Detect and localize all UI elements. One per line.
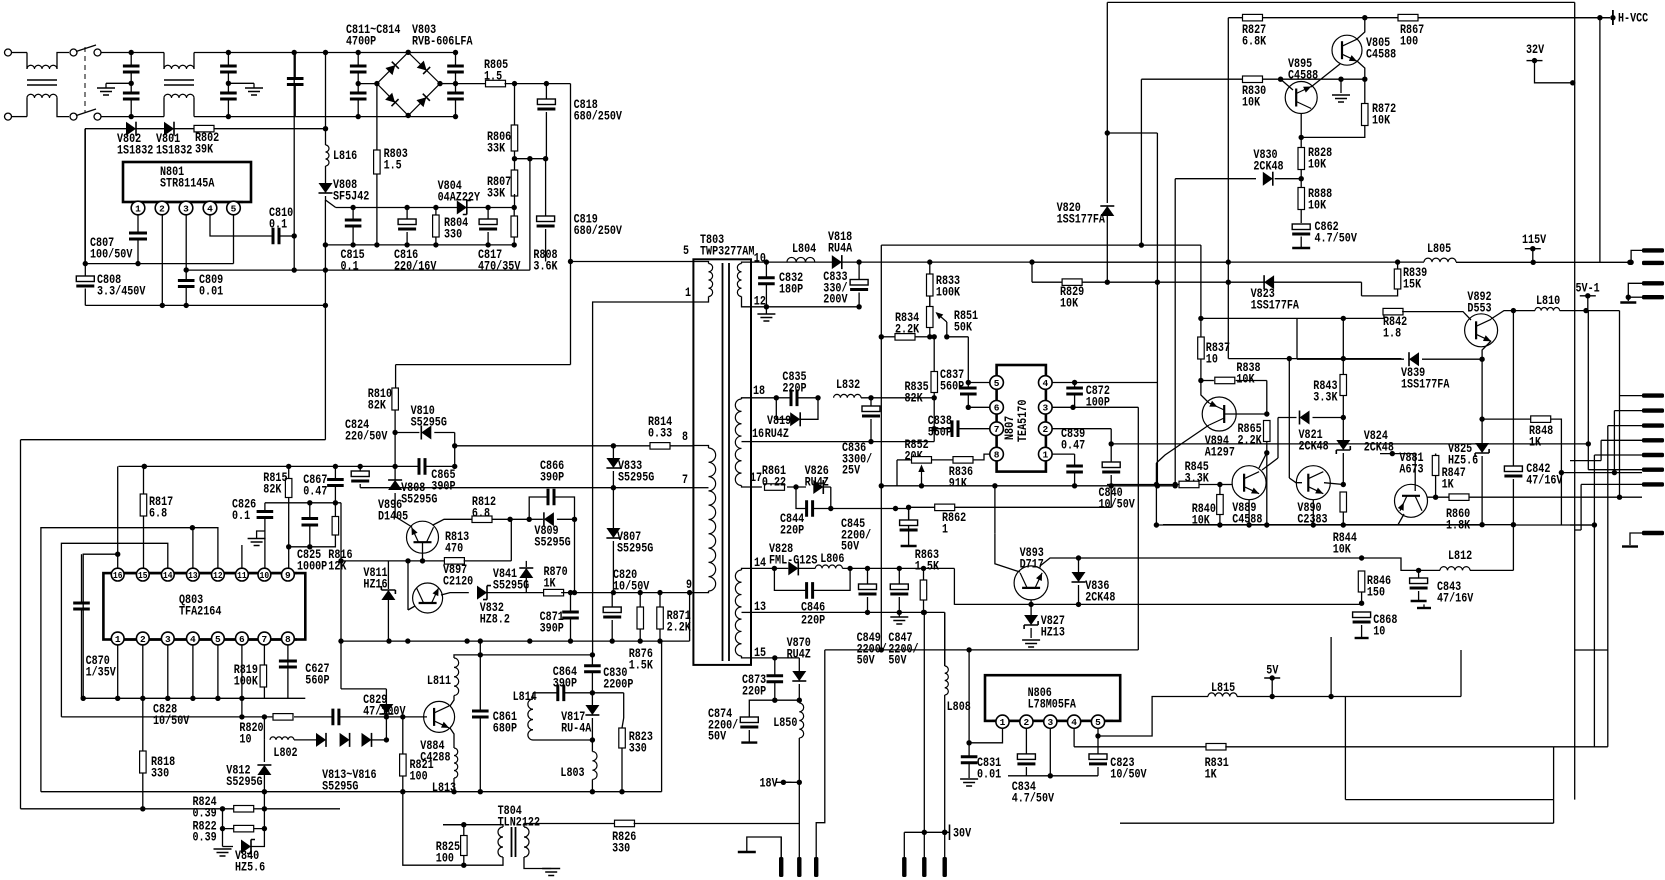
wire [591, 780, 593, 792]
wire gnd stub [1340, 79, 1342, 93]
wire y655 row [480, 654, 592, 656]
junction [461, 822, 466, 827]
wire V892 emitter2 [1482, 341, 1491, 359]
Q803 pin 4 [187, 632, 200, 645]
wire [932, 459, 953, 461]
wire V881 collector [1398, 514, 1404, 525]
wire V889 base [1220, 484, 1232, 486]
wire y650 left drop [816, 650, 825, 857]
wire V897 out row [441, 593, 469, 595]
wire blade s5 [1594, 454, 1642, 456]
junction [1109, 483, 1114, 488]
wire N807 pin3 [1052, 406, 1138, 408]
connector pin g1 [1642, 531, 1664, 535]
wire V894 collector [1156, 425, 1209, 463]
junction [1029, 259, 1034, 264]
wire C826 gnd stub [257, 531, 265, 539]
junction [772, 655, 777, 660]
svg-text:0.01: 0.01 [199, 283, 223, 298]
junction [165, 696, 170, 701]
wire y650 bus [825, 649, 1139, 651]
inductor L832 [834, 394, 861, 397]
connector pin bottom x944 [943, 857, 947, 877]
T803 primary winding 5-1 [709, 264, 713, 297]
svg-text:220/50V: 220/50V [345, 428, 388, 443]
wire N806 pin1 [969, 728, 1002, 743]
wire [101, 52, 131, 54]
resistor R817 [140, 494, 147, 516]
wire Q803 pin down [142, 645, 144, 698]
wire blade s3 [1608, 425, 1642, 427]
svg-text:10: 10 [260, 570, 270, 581]
svg-text:10/50V: 10/50V [1110, 766, 1146, 781]
wire pin15 col [143, 516, 145, 568]
svg-text:47/16V: 47/16V [1526, 472, 1562, 487]
svg-text:TLN2122: TLN2122 [498, 814, 541, 829]
svg-text:10/50V: 10/50V [153, 713, 189, 728]
junction [638, 590, 643, 595]
wire [440, 83, 456, 85]
wire [295, 116, 358, 118]
junction [433, 205, 438, 210]
junction [129, 81, 134, 86]
wire C825 down [309, 525, 311, 547]
diode V808 [319, 183, 333, 193]
junction [1592, 522, 1597, 527]
wire [163, 98, 165, 117]
wire [223, 846, 234, 848]
svg-text:L806: L806 [820, 551, 844, 566]
junction [262, 789, 267, 794]
resistor R820 [273, 714, 293, 721]
svg-text:A1297: A1297 [1205, 444, 1235, 459]
capacitor C845 [900, 520, 918, 526]
wire 5V feed [1098, 697, 1208, 737]
wire [955, 506, 1111, 508]
junction [543, 156, 548, 161]
svg-text:1/35V: 1/35V [86, 664, 116, 679]
wire [798, 658, 800, 671]
N801 pin 4 [203, 201, 217, 215]
wire [395, 432, 419, 434]
svg-text:TFA2164: TFA2164 [179, 603, 222, 618]
wire N801 pin1 [137, 215, 139, 233]
wire [1200, 359, 1202, 381]
junction [512, 242, 517, 247]
capacitor filter-1a [123, 66, 140, 72]
resistor R818 [140, 751, 147, 773]
N806 pin 1 [996, 715, 1009, 728]
junction [879, 647, 884, 652]
wire y358 bus [1228, 358, 1401, 360]
resistor R816 [332, 517, 339, 536]
terminal AC-L [5, 49, 12, 56]
T803 lead pin17 [742, 486, 752, 488]
svg-text:2: 2 [140, 634, 146, 645]
wire T804 bottom feed [403, 792, 464, 866]
wire [193, 98, 195, 117]
N807 pin 1 [1039, 447, 1053, 461]
wire [1300, 237, 1302, 248]
wire x1345 [1344, 697, 1346, 800]
wire R862 row [909, 506, 935, 508]
wire [293, 53, 295, 271]
wire [227, 99, 229, 117]
wire y472 ext [1614, 472, 1642, 474]
wire blade s2 [1614, 410, 1642, 412]
svg-text:330: 330 [151, 765, 169, 780]
wire pin16 bracket [83, 554, 118, 698]
diode V804 [457, 201, 467, 215]
T803 lead pin13 [742, 611, 752, 613]
resistor R843 [1340, 375, 1347, 396]
junction [323, 242, 328, 247]
capacitor C870 [73, 603, 90, 609]
transistor V896 D1405 [407, 521, 439, 553]
wire L814 top [532, 693, 534, 699]
junction [906, 505, 911, 510]
wire V821 left down [1277, 418, 1279, 459]
junction [1479, 522, 1484, 527]
junction [115, 696, 120, 701]
junction [451, 789, 456, 794]
svg-text:D717: D717 [1020, 556, 1044, 571]
junction [1597, 15, 1602, 20]
wire [748, 730, 750, 742]
svg-text:3: 3 [165, 634, 171, 645]
wire R826 out [634, 823, 800, 825]
svg-text:S5295G: S5295G [493, 577, 529, 592]
N801 pin rail [131, 201, 243, 203]
wire [227, 72, 229, 94]
wire [1418, 570, 1420, 578]
resistor R827 [1243, 14, 1263, 21]
N807 pin 7 [990, 422, 1004, 436]
junction [1362, 77, 1367, 82]
wire V890 emitter [1312, 500, 1314, 525]
Q803 pin 5 [212, 632, 225, 645]
Q803 pin 13 [187, 568, 200, 581]
wire bus y808 [21, 808, 234, 810]
N801 pin 3 [179, 201, 193, 215]
svg-text:H-VCC: H-VCC [1618, 11, 1648, 26]
junction [452, 464, 457, 469]
T803 lead pin15 [742, 656, 752, 658]
capacitor C819 [537, 216, 555, 222]
svg-text:HZ8.2: HZ8.2 [480, 611, 510, 626]
wire [1313, 417, 1344, 419]
wire [325, 129, 327, 145]
T803 lead pin1 [693, 297, 708, 303]
wire [403, 716, 427, 718]
wire R847 down [1435, 476, 1437, 498]
IC N807 TEA5170 box [997, 365, 1046, 472]
wire [455, 99, 457, 117]
wire L850 down [798, 738, 800, 857]
wire pin14 bracket [61, 543, 167, 717]
resistor R848 [1531, 416, 1551, 423]
wire [611, 620, 613, 641]
wire [294, 53, 296, 79]
wire Q803 pin down [217, 645, 219, 698]
wire R825 top [443, 824, 464, 826]
wire [1199, 484, 1220, 486]
wire [425, 465, 455, 467]
svg-text:7: 7 [994, 424, 1000, 435]
wire [455, 72, 457, 94]
resistor R867 [1398, 14, 1418, 21]
svg-text:50V: 50V [888, 653, 906, 668]
wire H-VCC row [1228, 17, 1600, 19]
resistor R807 [511, 170, 518, 196]
junction [897, 566, 902, 571]
junction [1531, 260, 1536, 265]
wire [1364, 79, 1366, 104]
wire [1627, 297, 1629, 301]
junction [485, 242, 490, 247]
wire R839 down [1362, 289, 1398, 296]
junction [1626, 295, 1631, 300]
trimmer R852 [912, 457, 932, 464]
wire [867, 568, 869, 584]
svg-text:220/16V: 220/16V [394, 258, 437, 273]
wire [968, 743, 970, 757]
inductor line-choke-2 bottom [164, 94, 194, 98]
junction [433, 242, 438, 247]
wire [325, 53, 327, 129]
svg-text:390P: 390P [553, 675, 577, 690]
wire [915, 336, 930, 338]
transistor V895 C4588 [1285, 82, 1317, 114]
wire [861, 397, 934, 399]
junction [610, 638, 615, 643]
svg-text:L832: L832 [836, 377, 860, 392]
wire bus y641 [341, 640, 690, 642]
resistor R862 [935, 504, 955, 511]
wire [263, 792, 265, 809]
junction [1155, 483, 1160, 488]
wire R837 col top [1200, 245, 1202, 318]
junction [1173, 483, 1178, 488]
wire [84, 264, 86, 276]
resistor R825 [461, 836, 468, 856]
wire V841 down [525, 578, 527, 593]
N807 pin 4 [1039, 376, 1053, 390]
resistor R847 [1432, 456, 1439, 476]
svg-text:0.01: 0.01 [977, 766, 1001, 781]
svg-text:2CK48: 2CK48 [1364, 439, 1394, 454]
N801 pin 5 [227, 201, 241, 215]
wire N806 pin5 [1097, 728, 1099, 736]
resistor R821 [400, 754, 407, 776]
wire V805 emitter [1357, 61, 1365, 79]
wire x934 col [933, 398, 935, 442]
wire R851 wiper [946, 322, 948, 337]
wire R829 row [1032, 281, 1063, 283]
wire [898, 612, 900, 617]
junction [323, 126, 328, 131]
svg-text:10K: 10K [1333, 541, 1351, 556]
junction [478, 652, 483, 657]
svg-text:S5295G: S5295G [617, 540, 653, 555]
trimmer R852 arrow [921, 466, 923, 477]
wire [435, 237, 437, 245]
diode V826 [813, 480, 823, 494]
capacitor C815 [345, 220, 362, 226]
svg-text:9: 9 [686, 577, 692, 592]
junction [1139, 242, 1144, 247]
wire R823 top [622, 718, 624, 728]
wire R865 top feed [1266, 381, 1268, 415]
svg-text:S5295G: S5295G [411, 414, 447, 429]
switch dashed link [84, 47, 86, 112]
diode V839 [1409, 352, 1419, 366]
connector pin bottom x816 [814, 857, 818, 877]
wire [227, 53, 229, 67]
svg-text:5V-1: 5V-1 [1576, 280, 1600, 295]
svg-text:18V: 18V [760, 775, 778, 790]
wire R865 to V889 [1259, 453, 1267, 468]
N807 pin 8 [990, 447, 1004, 461]
wire [923, 600, 925, 612]
capacitor filter-2a [220, 66, 237, 72]
junction [797, 698, 802, 703]
svg-text:16: 16 [752, 426, 764, 441]
N807 pin 6 [990, 401, 1004, 415]
Q803 pin 1 [111, 632, 124, 645]
wire V805 collector [1357, 18, 1365, 39]
op-amp N801 box [123, 162, 251, 202]
wire [434, 432, 454, 434]
wire pin12 up [193, 528, 218, 569]
svg-text:2200P: 2200P [603, 676, 633, 691]
wire N807 pin1 [1052, 453, 1075, 455]
svg-text:1.8: 1.8 [1383, 325, 1401, 340]
wire [1236, 380, 1267, 382]
switch blade bottom [76, 109, 96, 116]
wire V830 col [1174, 179, 1176, 486]
resistor R814 [650, 443, 670, 450]
ground bottom [738, 851, 756, 853]
resistor R888 [1298, 188, 1305, 210]
wire V895 collector [1311, 64, 1340, 87]
junction [932, 395, 937, 400]
resistor R829 [1062, 279, 1082, 286]
diode V825 zener [1475, 443, 1489, 453]
wire [1422, 358, 1482, 360]
N801 pin 1 [131, 201, 145, 215]
wire [456, 83, 487, 85]
capacitor C849 [859, 584, 877, 590]
wire [1074, 472, 1076, 486]
svg-text:100: 100 [436, 850, 454, 865]
resistor R802 [194, 125, 214, 131]
wire blade1 [1631, 250, 1642, 262]
wire [57, 98, 69, 117]
svg-text:30V: 30V [953, 826, 971, 841]
wire x954 col [953, 568, 955, 604]
wire y604 row [954, 603, 1361, 605]
resistor R863 [920, 580, 927, 600]
wire x1513 down2 [1512, 525, 1514, 571]
junction [400, 789, 405, 794]
svg-text:L812: L812 [1448, 548, 1472, 563]
svg-text:3: 3 [1042, 403, 1048, 414]
wire Q803 pin down [117, 645, 119, 698]
wire x1461 [1460, 650, 1462, 697]
svg-text:C2120: C2120 [443, 573, 473, 588]
wire 115V rail left [1032, 261, 1424, 263]
wire [325, 244, 514, 246]
wire [1082, 281, 1362, 283]
wire [357, 99, 359, 117]
resistor R837 [1198, 337, 1205, 359]
wire C867 col [334, 466, 336, 479]
wire [1481, 419, 1483, 443]
wire [591, 740, 593, 752]
wire [142, 773, 144, 809]
wire 115V stub [1532, 249, 1534, 263]
wire [487, 208, 489, 220]
junction [572, 517, 577, 522]
wire [787, 486, 806, 488]
wire V893 col up [994, 486, 996, 533]
svg-text:4: 4 [1042, 378, 1048, 389]
N806 pin 2 [1020, 715, 1033, 728]
svg-text:1: 1 [115, 634, 121, 645]
svg-text:25V: 25V [842, 463, 860, 478]
capacitor C865 [419, 458, 425, 475]
Q803 pin 14 [161, 568, 174, 581]
junction [1154, 482, 1159, 487]
svg-text:04AZ22Y: 04AZ22Y [438, 189, 481, 204]
svg-text:L810: L810 [1536, 293, 1560, 308]
wire Q803 pin down [192, 645, 194, 698]
svg-text:12K: 12K [328, 558, 346, 573]
junction [1278, 77, 1283, 82]
svg-text:L850: L850 [773, 715, 797, 730]
ground C862 [1292, 247, 1310, 249]
wire [1078, 558, 1080, 572]
wire y472 row [1561, 472, 1614, 474]
junction [932, 426, 937, 431]
wire [1097, 767, 1099, 776]
junction [619, 789, 624, 794]
wire y799 row [1345, 799, 1553, 801]
IC Q803 TFA2164 box [103, 573, 305, 639]
N801 pin 2 [155, 201, 169, 215]
core line-choke-2 [164, 80, 194, 85]
wire [898, 568, 900, 584]
svg-text:6: 6 [994, 403, 1000, 414]
svg-text:2: 2 [159, 203, 165, 214]
wire V826 down [830, 487, 832, 509]
wire bus c [1607, 426, 1609, 650]
junction [333, 500, 338, 505]
wire x1157 top [1156, 133, 1158, 282]
wire L810 out [1560, 310, 1620, 312]
svg-text:220P: 220P [742, 683, 766, 698]
wire [279, 235, 295, 237]
wire [1156, 383, 1158, 486]
inductor L850 [799, 703, 803, 738]
wire N807 pin7 [934, 428, 952, 430]
connector pin 115V-a [1642, 248, 1664, 252]
wire N806 pin3 [1049, 728, 1051, 776]
junction [638, 638, 643, 643]
svg-text:5: 5 [1095, 717, 1101, 728]
resistor R812 [472, 516, 492, 523]
